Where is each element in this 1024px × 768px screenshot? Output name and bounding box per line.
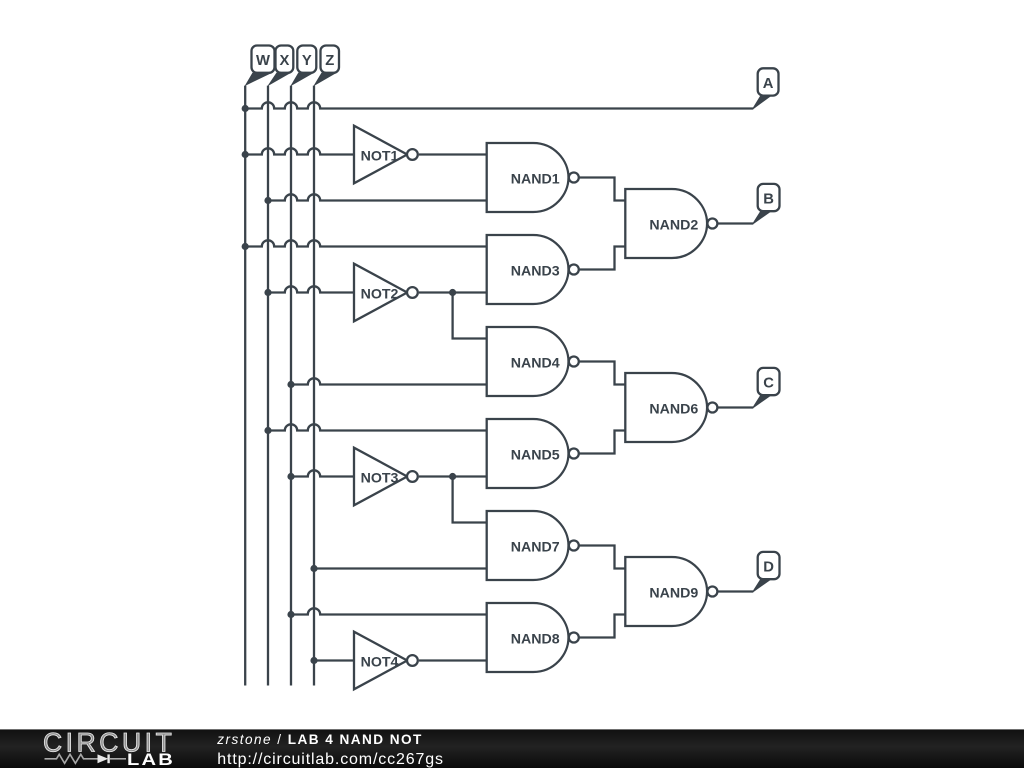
wire X bus vertical <box>267 86 269 686</box>
wire Z bus vertical <box>313 86 315 686</box>
svg-text:W: W <box>256 53 270 69</box>
svg-text:zrstone / LAB 4 NAND NOT: zrstone / LAB 4 NAND NOT <box>216 732 423 747</box>
svg-text:B: B <box>763 192 774 208</box>
svg-text:NAND2: NAND2 <box>649 218 698 234</box>
wire Y to NOT3 input <box>291 470 354 476</box>
wire Y to NAND4 input B <box>291 378 487 384</box>
junction dot on Y bus at y=384.5 <box>287 381 294 388</box>
inverter NOT3 <box>354 448 407 506</box>
svg-text:NAND5: NAND5 <box>511 448 560 464</box>
svg-text:C: C <box>763 376 774 392</box>
wire NAND6 output to flag C <box>718 406 753 408</box>
wire W bus vertical <box>244 86 246 686</box>
junction dot on Z bus at y=568.5 <box>310 565 317 572</box>
inverter NOT1 <box>354 126 407 184</box>
nand-gate NAND8 <box>487 603 569 672</box>
svg-text:NOT4: NOT4 <box>361 655 399 671</box>
svg-text:Z: Z <box>325 53 334 69</box>
junction dot on W bus at y=154.5 <box>242 151 249 158</box>
input flag W <box>244 73 272 87</box>
svg-text:NAND8: NAND8 <box>511 632 560 648</box>
junction dot on W bus at y=108.5 <box>242 105 249 112</box>
wire NAND9 output to flag D <box>718 590 753 592</box>
wire X to NAND1 input B <box>268 194 487 200</box>
wire NOT1 output to NAND1 input A <box>419 153 487 155</box>
input flag X <box>267 73 291 87</box>
footer bar <box>0 729 1024 768</box>
junction node NOT2 output <box>449 289 456 296</box>
wire NOT2 output to NAND3 input B <box>419 291 487 293</box>
wire Z to NOT4 input <box>314 659 354 661</box>
input flag Y <box>290 73 314 87</box>
output flag D <box>752 579 772 592</box>
wire NAND2 output to flag B <box>718 222 753 224</box>
inverter NOT2 <box>354 264 407 322</box>
svg-text:NAND9: NAND9 <box>649 586 698 602</box>
wire X to NAND5 input A <box>268 424 487 430</box>
nand-gate NAND6 <box>625 373 707 442</box>
output flag C <box>752 395 772 408</box>
inverter NOT4 <box>354 632 407 690</box>
svg-text:LAB: LAB <box>127 750 175 768</box>
wire Z to NAND7 input B <box>314 567 487 569</box>
wire NOT2 output branch to NAND4 input A <box>453 293 487 339</box>
svg-text:A: A <box>763 76 774 92</box>
junction dot on Z bus at y=660.5 <box>310 657 317 664</box>
svg-text:http://circuitlab.com/cc267gs: http://circuitlab.com/cc267gs <box>217 751 444 768</box>
wire NAND8 output to stage-2 gate <box>579 615 625 638</box>
wire W to NOT1 input <box>245 148 354 154</box>
wire W to NAND3 input A <box>245 240 487 246</box>
nand-gate NAND7 <box>487 511 569 580</box>
svg-text:D: D <box>763 560 774 576</box>
nand-gate NAND5 <box>487 419 569 488</box>
nand-gate NAND3 <box>487 235 569 304</box>
junction dot on X bus at y=430.5 <box>264 427 271 434</box>
svg-text:NOT1: NOT1 <box>361 149 399 165</box>
wire NOT3 output to NAND5 input B <box>419 475 487 477</box>
nand-gate NAND9 <box>625 557 707 626</box>
svg-text:NOT3: NOT3 <box>361 471 399 487</box>
svg-text:NAND4: NAND4 <box>511 356 560 372</box>
input flag Z <box>313 73 337 87</box>
nand-gate NAND1 <box>487 143 569 212</box>
output flag B <box>752 211 772 224</box>
wire NAND3 output to stage-2 gate <box>579 247 625 270</box>
nand-gate NAND2 <box>625 189 707 258</box>
svg-text:NAND7: NAND7 <box>511 540 560 556</box>
svg-text:NAND6: NAND6 <box>649 402 698 418</box>
output flag A <box>752 96 772 110</box>
wire Y to NAND8 input A <box>291 608 487 614</box>
wire W to output A <box>245 102 753 108</box>
svg-text:Y: Y <box>302 53 312 69</box>
wire NOT4 output to NAND8 input B <box>419 659 487 661</box>
svg-text:NAND3: NAND3 <box>511 264 560 280</box>
junction dot on W bus at y=246.5 <box>242 243 249 250</box>
junction dot on Y bus at y=614.5 <box>287 611 294 618</box>
junction dot on X bus at y=200.5 <box>264 197 271 204</box>
nand-gate NAND4 <box>487 327 569 396</box>
wire NAND1 output to stage-2 gate <box>579 178 625 201</box>
svg-text:X: X <box>279 53 289 69</box>
wire NOT3 output branch to NAND7 input A <box>453 477 487 523</box>
wire X to NOT2 input <box>268 286 354 292</box>
wire NAND7 output to stage-2 gate <box>579 546 625 569</box>
junction dot on X bus at y=292.5 <box>264 289 271 296</box>
svg-text:NOT2: NOT2 <box>361 287 399 303</box>
junction node NOT3 output <box>449 473 456 480</box>
wire NAND5 output to stage-2 gate <box>579 431 625 454</box>
wire NAND4 output to stage-2 gate <box>579 362 625 385</box>
junction dot on Y bus at y=476.5 <box>287 473 294 480</box>
svg-text:NAND1: NAND1 <box>511 172 560 188</box>
wire Y bus vertical <box>290 86 292 686</box>
logo resistor + diode squiggle <box>45 754 98 763</box>
